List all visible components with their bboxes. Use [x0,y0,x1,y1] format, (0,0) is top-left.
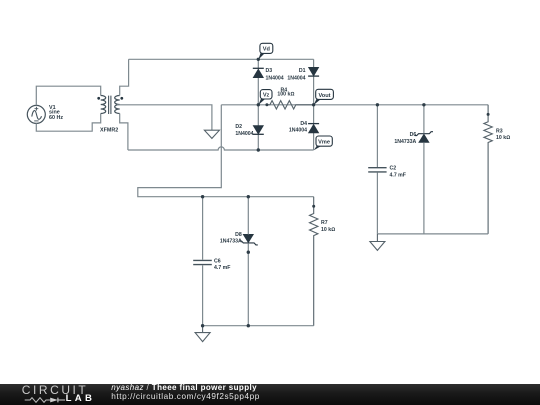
V1 labels [49,105,63,121]
svg-text:1N4004: 1N4004 [266,76,284,82]
R4 labels [277,87,294,97]
resistor R7 [310,197,318,326]
D3 labels [266,68,284,82]
C2 labels [390,166,406,179]
junction dot D2 bottom [257,148,260,151]
svg-text:1N4733A: 1N4733A [394,139,416,145]
svg-text:100 kΩ: 100 kΩ [277,92,294,98]
terminal dot R3 top [487,113,490,116]
zener diode D6 [415,132,433,143]
D4 labels [289,121,307,133]
junction dot C2 top [376,103,379,106]
wire middle rail drop to lower circuit [138,105,314,197]
capacitor C2 [368,168,386,172]
svg-text:Vz: Vz [263,93,270,99]
diode D2 [253,126,264,135]
D6 leads [423,105,425,234]
wire V1 bottom [36,114,100,132]
transformer polarity dot primary [97,97,100,100]
node label Vd [258,43,273,59]
svg-text:4.7 mF: 4.7 mF [390,172,406,178]
C6 labels [214,258,230,271]
wire D1 column [313,59,315,150]
logo CIRCUIT [22,383,89,397]
node label Vout [314,89,334,105]
junction dot C6 bottom [201,324,204,327]
transformer core [109,96,111,114]
svg-text:D3: D3 [266,68,273,74]
R3 labels [496,128,510,141]
voltage source V1 [27,105,45,123]
zener diode D8 [240,234,258,245]
svg-text:1N4733A: 1N4733A [220,239,242,245]
wire V1 top [36,86,100,105]
D1 labels [287,68,305,82]
terminal dot R4 left [265,103,268,106]
D8 labels [220,232,242,245]
diode D3 [253,68,264,77]
wire center tap to ground [117,105,212,130]
svg-text:D2: D2 [235,124,242,130]
svg-text:Vme: Vme [318,140,330,146]
junction dot top rail D3 [257,58,260,61]
svg-text:R7: R7 [321,220,328,226]
resistor R4 [267,101,314,109]
C6 leads [202,197,204,326]
svg-text:R3: R3 [496,128,503,134]
ground right section [370,234,385,251]
junction dot C6 top [201,195,204,198]
wire D3 column [257,59,259,150]
R7 labels [321,220,335,233]
terminal dot R7 top [312,205,315,208]
logo LAB [66,393,96,404]
junction dot Vout [312,103,315,106]
wire bottom rail with hop [128,147,314,150]
transformer XFMR2 primary coil [101,96,106,114]
svg-text:4.7 mF: 4.7 mF [214,265,230,271]
transformer XFMR2 secondary coil [115,96,120,114]
capacitor C6 [193,260,212,264]
wire right bottom rail [377,233,488,235]
svg-text:Vd: Vd [263,47,271,53]
svg-text:10 kΩ: 10 kΩ [496,135,510,141]
wire middle rail [221,104,488,106]
diode D4 [308,124,319,133]
svg-text:1N4004: 1N4004 [289,127,307,133]
transformer polarity dot secondary [120,97,123,100]
footer url [111,392,260,401]
terminal dot D8 bottom [247,251,250,254]
junction dot Vz [257,103,260,106]
wire top rail [129,58,314,60]
svg-text:10 kΩ: 10 kΩ [321,227,335,233]
wire secondary bottom lead [120,114,128,151]
junction dot D8 top [247,195,250,198]
svg-text:D8: D8 [235,232,242,238]
D8 leads [247,197,249,326]
svg-text:D1: D1 [299,68,306,74]
resistor R3 [484,105,492,234]
D6 labels [394,132,416,145]
wire lower bottom rail [203,325,314,327]
ground near transformer [204,130,219,138]
wire secondary top lead [120,59,129,95]
node label Vme [314,136,333,150]
D2 labels [235,124,253,137]
node label Vz [258,90,272,105]
svg-text:60 Hz: 60 Hz [49,115,63,121]
junction dot D6 top [422,103,425,106]
svg-text:1N4004: 1N4004 [287,76,305,82]
junction dot D8 bottom rail [247,324,250,327]
diode D1 [308,67,319,76]
logo resistor-diode squiggle [17,396,69,404]
svg-text:D4: D4 [300,121,307,127]
svg-text:C6: C6 [214,258,221,264]
svg-text:1N4004: 1N4004 [235,131,253,137]
svg-text:XFMR2: XFMR2 [100,128,118,134]
footer bar [0,384,540,405]
ground lower section [195,326,210,342]
svg-text:C2: C2 [390,166,397,172]
footer title [111,383,257,392]
svg-text:Vout: Vout [318,93,330,99]
C2 leads [376,105,378,234]
svg-text:D6: D6 [410,132,417,138]
